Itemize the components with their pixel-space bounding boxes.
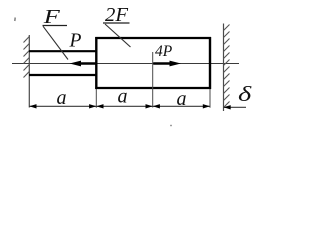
step extension line to dimension bbox=[95, 89, 97, 108]
stray dot bottom-center bbox=[170, 125, 172, 127]
label F underline bbox=[43, 25, 68, 27]
narrow bar bottom edge bbox=[29, 74, 97, 76]
force 4P arrow bbox=[153, 61, 181, 67]
dim arrow at left wall bbox=[29, 104, 36, 108]
svg-text:4P: 4P bbox=[155, 43, 173, 60]
stray mark top-left bbox=[14, 18, 16, 22]
step line (large bar left edge) bbox=[95, 37, 97, 89]
dim arrow pair at step bbox=[89, 104, 96, 108]
large bar top edge bbox=[95, 37, 211, 39]
dim arrow pair at 4P tick bbox=[146, 104, 153, 108]
dimension line bbox=[29, 105, 210, 107]
svg-text:P: P bbox=[69, 31, 82, 52]
large bar outline bbox=[95, 37, 211, 89]
large bar right end line bbox=[209, 37, 211, 89]
label 2F underline bbox=[103, 22, 130, 24]
delta dim arrow at right wall bbox=[224, 105, 231, 109]
left wall line bbox=[28, 35, 30, 108]
large bar bottom edge bbox=[95, 87, 211, 89]
label F leader line bbox=[43, 26, 68, 59]
svg-text:a: a bbox=[177, 88, 187, 110]
left wall hatching bbox=[24, 37, 30, 78]
svg-text:a: a bbox=[118, 86, 128, 108]
bar end extension line to dimension bbox=[209, 89, 211, 108]
dim arrow at bar end bbox=[203, 104, 210, 108]
right wall hatching bbox=[224, 25, 230, 108]
centerline bbox=[12, 63, 239, 65]
delta dimension line bbox=[224, 106, 247, 108]
right wall line bbox=[223, 24, 225, 112]
svg-text:a: a bbox=[57, 87, 67, 109]
svg-text:F: F bbox=[42, 6, 60, 28]
label 2F leader line bbox=[105, 24, 131, 47]
svg-text:δ: δ bbox=[238, 83, 252, 106]
4P application tick line bbox=[152, 52, 154, 108]
narrow bar top edge bbox=[29, 50, 97, 52]
force P arrow bbox=[70, 61, 97, 67]
